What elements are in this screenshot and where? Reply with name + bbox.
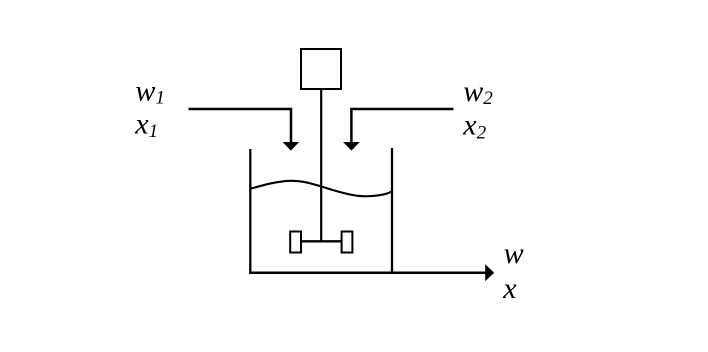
inlet stream 1 line: [189, 109, 292, 143]
tank left wall: [249, 149, 251, 274]
svg-text:x: x: [502, 272, 517, 305]
inlet stream 2 line: [351, 109, 453, 143]
impeller right blade: [342, 232, 353, 253]
agitator shaft: [320, 89, 322, 241]
inlet stream 2 arrowhead: [343, 142, 360, 151]
tank bottom and outlet line: [249, 272, 486, 275]
inlet stream 1 arrowhead: [283, 142, 300, 151]
tank right wall: [391, 148, 393, 274]
liquid surface wave: [250, 181, 392, 196]
motor box M: [301, 49, 341, 89]
svg-text:w: w: [504, 237, 524, 270]
impeller bar: [300, 240, 343, 242]
impeller left blade: [290, 232, 301, 253]
outlet arrowhead: [485, 264, 494, 281]
